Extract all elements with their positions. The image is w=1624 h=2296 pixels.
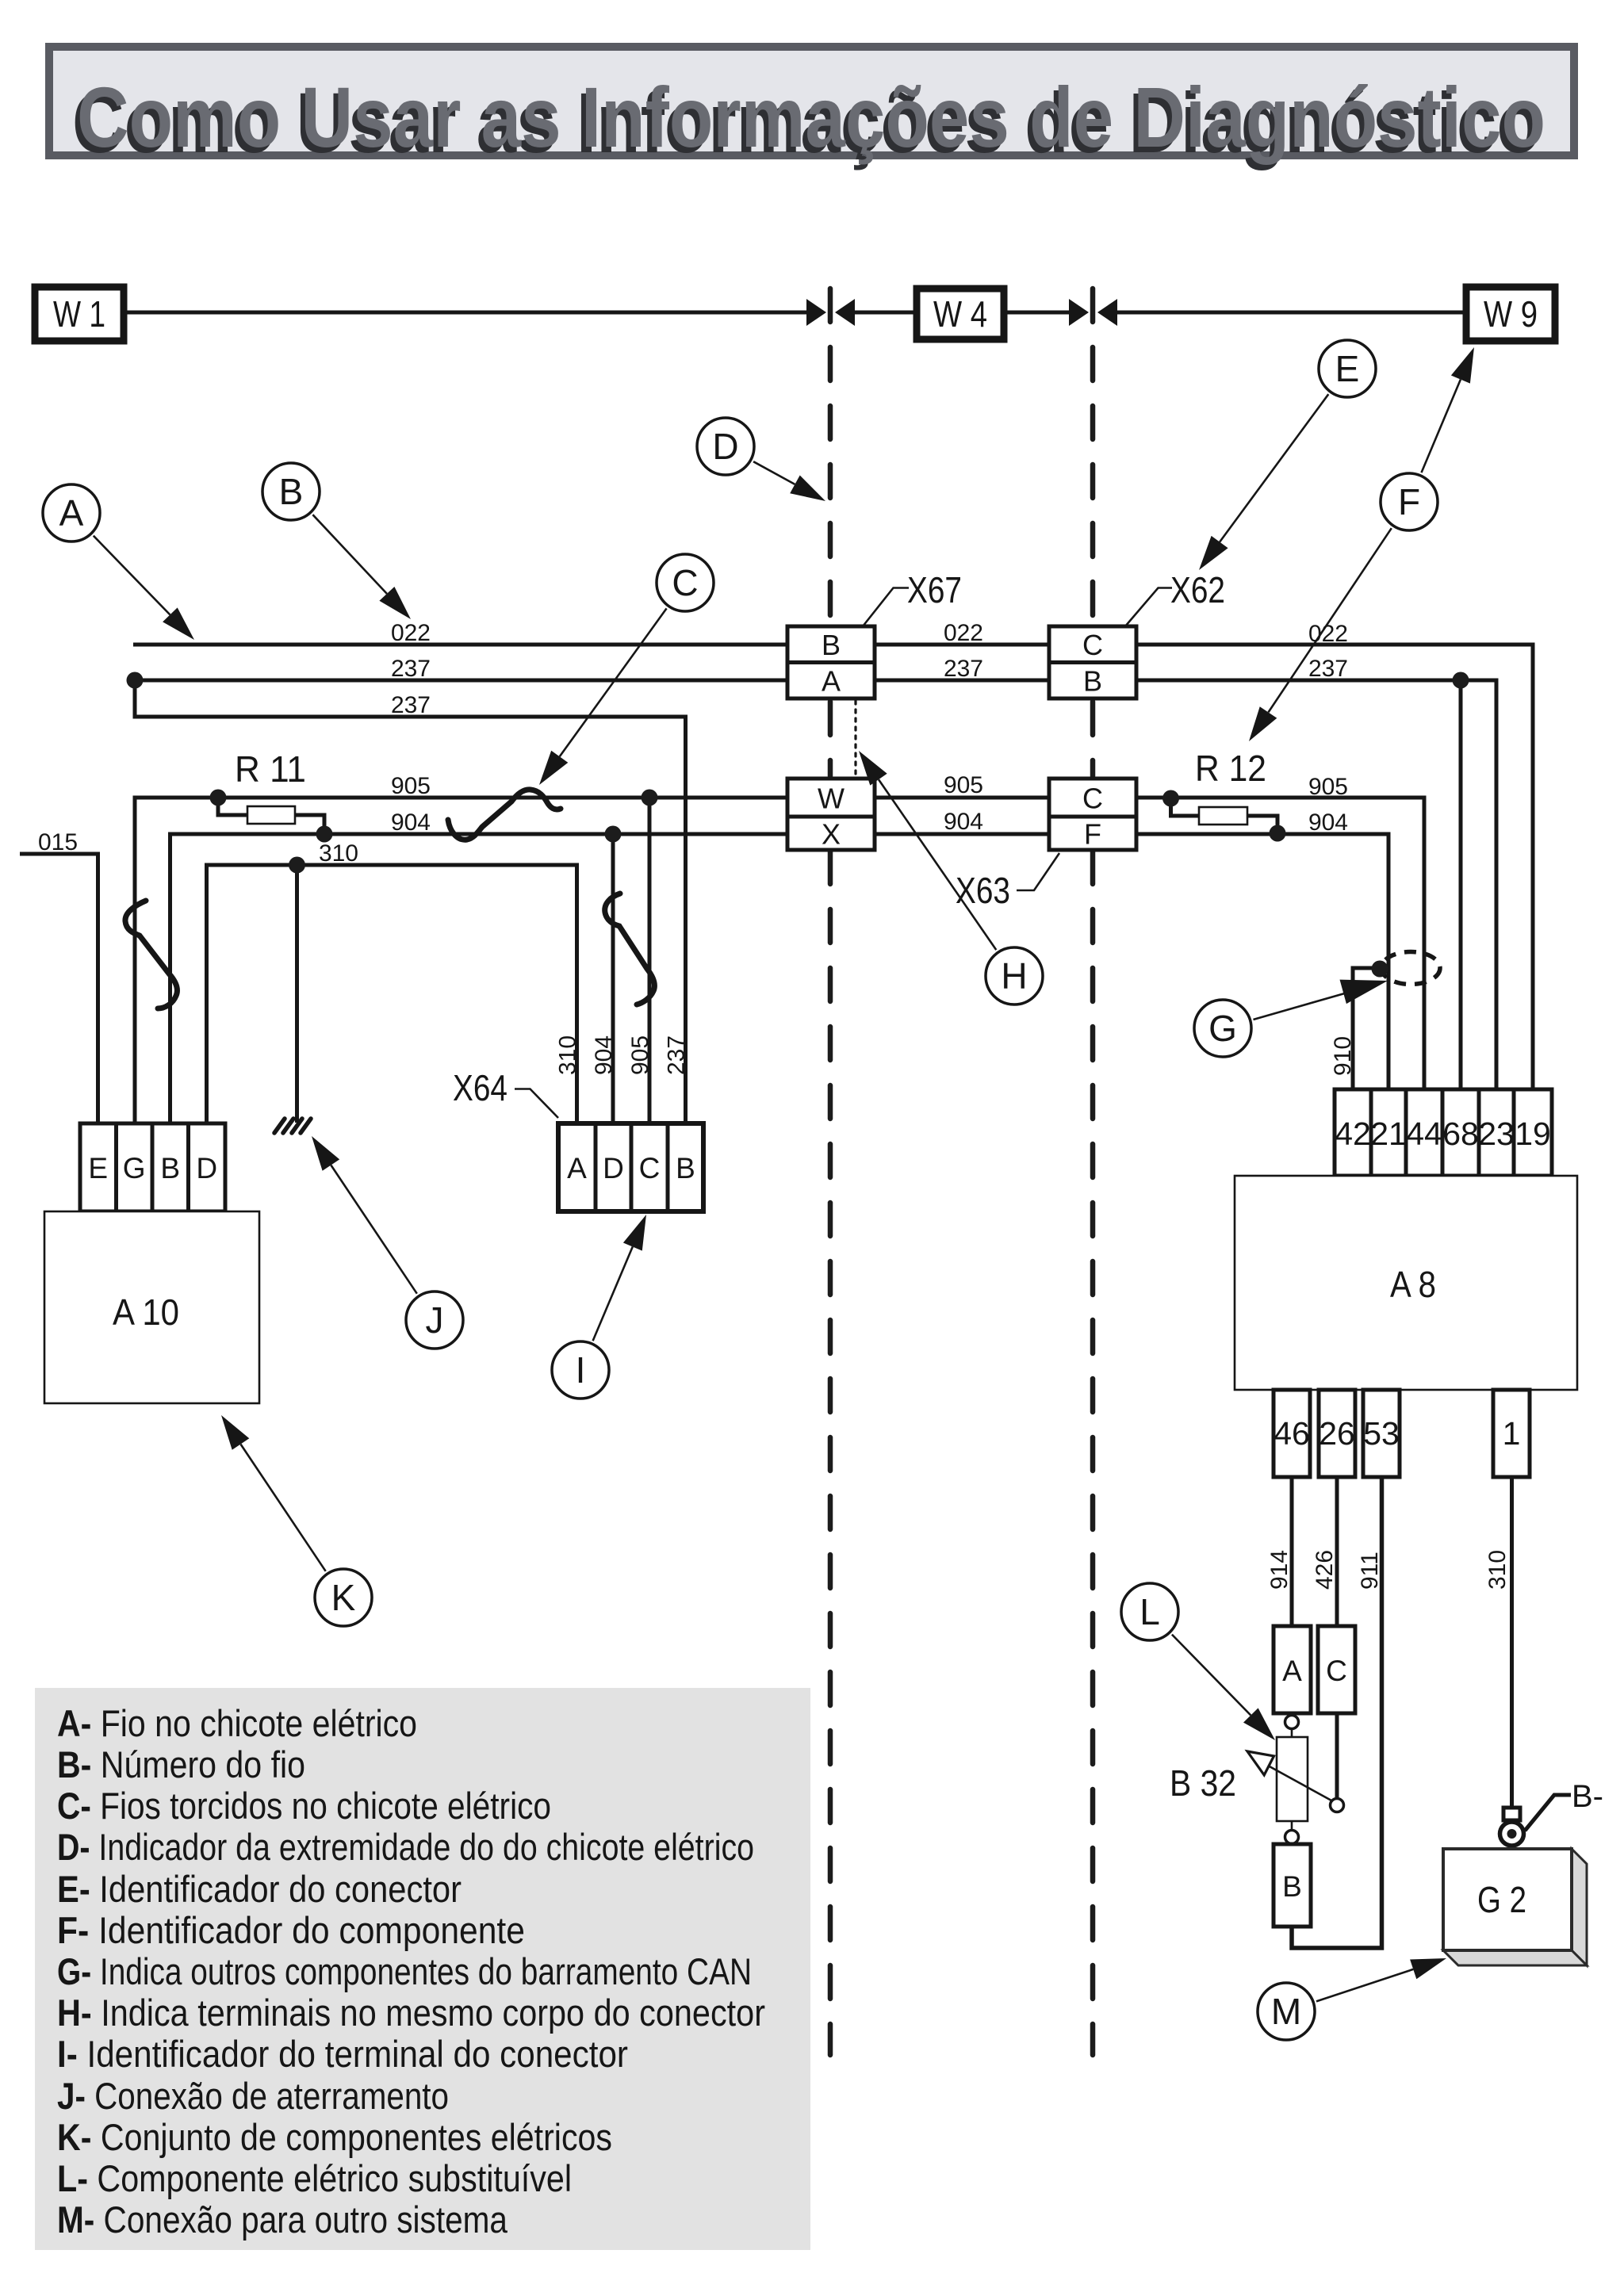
junction X64-C drop on 905 — [642, 790, 658, 806]
svg-text:022: 022 — [391, 620, 431, 646]
svg-text:905: 905 — [944, 772, 983, 798]
harness box W4 — [917, 289, 1004, 339]
harness box W1 — [35, 287, 124, 341]
svg-text:M: M — [1271, 1991, 1301, 2032]
svg-text:1: 1 — [1503, 1415, 1521, 1452]
wire 310 battery — [1510, 1477, 1514, 1808]
svg-text:B- Número do fio: B- Número do fio — [57, 1743, 305, 1785]
svg-text:E- Identificador do conector: E- Identificador do conector — [57, 1868, 462, 1910]
svg-text:310: 310 — [319, 840, 358, 867]
svg-text:26: 26 — [1319, 1415, 1355, 1452]
A8 top terminal block — [1335, 1089, 1552, 1176]
twisted pair symbol X64 vertical — [605, 894, 655, 1004]
svg-text:905: 905 — [1308, 774, 1348, 800]
svg-text:B: B — [279, 471, 304, 512]
callout D — [697, 418, 825, 501]
svg-text:23: 23 — [1478, 1115, 1515, 1152]
svg-text:G: G — [123, 1152, 146, 1184]
B32 terminal C — [1318, 1626, 1355, 1713]
harness boundary dashed line left — [828, 289, 833, 2055]
svg-text:K- Conjunto de componentes elé: K- Conjunto de componentes elétricos — [57, 2116, 612, 2158]
callout G — [1194, 980, 1388, 1057]
svg-text:X: X — [822, 818, 841, 851]
junction R12 bottom on 904 — [1270, 825, 1286, 842]
svg-text:B: B — [822, 629, 841, 661]
svg-text:J- Conexão de aterramento: J- Conexão de aterramento — [57, 2075, 449, 2117]
svg-text:B: B — [676, 1152, 695, 1184]
junction on wire 237 left — [127, 672, 144, 689]
wire 910 — [1353, 968, 1387, 1089]
svg-text:D: D — [712, 426, 738, 467]
svg-text:X67: X67 — [907, 569, 962, 610]
wire 904 drop to X64 D — [611, 834, 615, 1123]
svg-text:B 32: B 32 — [1170, 1762, 1236, 1804]
legend panel — [35, 1688, 810, 2250]
callout L — [1121, 1583, 1275, 1740]
svg-text:C: C — [1082, 629, 1103, 661]
svg-text:I- Identificador do terminal d: I- Identificador do terminal do conector — [57, 2033, 628, 2075]
svg-text:H- Indica terminais no mesmo c: H- Indica terminais no mesmo corpo do co… — [57, 1992, 765, 2034]
svg-text:X63: X63 — [956, 870, 1010, 911]
battery post B- — [1500, 1779, 1604, 1846]
svg-text:G 2: G 2 — [1477, 1879, 1526, 1920]
svg-text:L- Componente elétrico substit: L- Componente elétrico substituível — [57, 2157, 572, 2199]
svg-text:L: L — [1139, 1591, 1160, 1632]
harness span line W1-W4 — [127, 299, 1463, 326]
B32 terminal B — [1274, 1844, 1311, 1927]
battery G2 — [1443, 1849, 1587, 1965]
svg-text:D- Indicador da extremidade do: D- Indicador da extremidade do do chicot… — [57, 1826, 754, 1868]
svg-text:C: C — [1082, 783, 1103, 815]
svg-text:904: 904 — [944, 809, 983, 835]
svg-text:B-: B- — [1572, 1779, 1603, 1814]
component B32 variable resistor — [1170, 1737, 1308, 1821]
svg-text:237: 237 — [1308, 656, 1348, 682]
callout A — [43, 484, 194, 640]
svg-text:B: B — [1083, 665, 1102, 698]
svg-text:X62: X62 — [1170, 569, 1225, 610]
callout E — [1199, 340, 1376, 570]
A8 bottom terminal 1 — [1493, 1390, 1530, 1477]
connector X62 — [1049, 569, 1225, 698]
svg-text:C: C — [1326, 1655, 1347, 1687]
svg-text:910: 910 — [1330, 1036, 1356, 1076]
svg-text:E: E — [88, 1152, 108, 1184]
svg-text:W 4: W 4 — [933, 293, 987, 335]
callout B — [262, 463, 411, 619]
B32 terminal A — [1274, 1626, 1311, 1713]
wire 237 upper — [135, 680, 1496, 1089]
svg-text:F- Identificador do componente: F- Identificador do componente — [57, 1909, 525, 1951]
harness boundary dashed line right — [1090, 289, 1096, 2055]
B32 wiper arm — [1247, 1751, 1331, 1800]
junction R12 top on 905 — [1162, 790, 1179, 807]
svg-text:A: A — [59, 492, 84, 534]
svg-text:W: W — [818, 783, 845, 815]
svg-text:Como Usar as Informações de Di: Como Usar as Informações de Diagnóstico — [77, 69, 1545, 165]
svg-text:C: C — [639, 1152, 661, 1184]
connector W/X — [787, 779, 875, 851]
svg-text:I: I — [576, 1349, 586, 1391]
svg-text:R 12: R 12 — [1195, 748, 1266, 789]
callout I — [552, 1215, 646, 1399]
svg-text:E: E — [1335, 348, 1360, 389]
junction ground on 310 — [289, 857, 305, 874]
junction R11 top on 905 — [210, 790, 227, 806]
svg-text:904: 904 — [1308, 809, 1348, 836]
svg-text:K: K — [331, 1577, 356, 1618]
svg-text:310: 310 — [1484, 1550, 1511, 1590]
callout F — [1249, 347, 1474, 741]
component A10 — [44, 1211, 259, 1403]
harness box W9 — [1466, 287, 1555, 341]
resistor R11 — [218, 748, 324, 834]
svg-text:015: 015 — [38, 829, 78, 855]
ground drop wire — [295, 865, 299, 1123]
svg-text:G: G — [1208, 1008, 1237, 1049]
svg-text:C- Fios torcidos no chicote el: C- Fios torcidos no chicote elétrico — [57, 1785, 551, 1827]
dotted same-connector link X67A to W — [854, 701, 856, 776]
svg-text:A 8: A 8 — [1390, 1264, 1436, 1305]
wire 015 — [20, 854, 98, 1123]
svg-text:A: A — [567, 1152, 587, 1184]
junction X64-D drop on 904 — [605, 826, 622, 843]
callout H — [859, 751, 1043, 1004]
callout K — [221, 1415, 372, 1626]
connector X67 — [787, 569, 962, 698]
svg-text:905: 905 — [627, 1035, 653, 1075]
svg-text:A- Fio no chicote elétrico: A- Fio no chicote elétrico — [57, 1702, 417, 1744]
connector X64 — [453, 1067, 703, 1211]
svg-text:G- Indica outros componentes d: G- Indica outros componentes do barramen… — [57, 1950, 752, 1992]
resistor R12 — [1171, 748, 1278, 833]
svg-text:D: D — [603, 1152, 624, 1184]
junction R11 bottom on 904 — [316, 826, 333, 843]
callout M — [1258, 1958, 1446, 2040]
svg-text:911: 911 — [1357, 1552, 1383, 1590]
svg-text:F: F — [1084, 818, 1101, 851]
svg-text:237: 237 — [664, 1035, 690, 1075]
wire 426 — [1335, 1477, 1339, 1626]
svg-text:904: 904 — [391, 809, 431, 836]
wire 905 — [135, 798, 1424, 1123]
svg-text:904: 904 — [591, 1035, 617, 1075]
svg-text:A 10: A 10 — [113, 1291, 179, 1333]
svg-text:21: 21 — [1370, 1115, 1407, 1152]
svg-text:46: 46 — [1274, 1415, 1310, 1452]
callout J — [312, 1136, 463, 1349]
svg-text:C: C — [672, 562, 698, 603]
wire 914 — [1290, 1477, 1294, 1626]
svg-text:022: 022 — [944, 620, 983, 646]
svg-text:B: B — [1282, 1870, 1302, 1903]
svg-text:W 1: W 1 — [53, 293, 105, 335]
svg-text:M- Conexão para outro sistema: M- Conexão para outro sistema — [57, 2198, 508, 2241]
svg-text:237: 237 — [944, 656, 983, 682]
A8 bottom terminal 46 — [1274, 1390, 1310, 1477]
svg-text:237: 237 — [391, 692, 431, 718]
connector X63 — [956, 779, 1136, 911]
svg-text:68: 68 — [1442, 1115, 1479, 1152]
title banner — [49, 47, 1574, 170]
svg-text:W 9: W 9 — [1484, 293, 1538, 335]
B32 pin circle top — [1285, 1713, 1299, 1737]
component A8 — [1235, 1176, 1577, 1390]
svg-text:237: 237 — [391, 656, 431, 682]
svg-text:R 11: R 11 — [235, 748, 306, 790]
wire 911 — [1292, 1477, 1382, 1948]
svg-text:D: D — [196, 1152, 217, 1184]
svg-text:914: 914 — [1266, 1550, 1293, 1590]
wire 022 — [133, 645, 1533, 1089]
junction 910 CAN node — [1372, 961, 1388, 978]
svg-text:H: H — [1001, 955, 1027, 997]
svg-text:B: B — [160, 1152, 180, 1184]
wire 237 lower run to X64 — [135, 680, 686, 1123]
svg-text:A: A — [822, 665, 841, 698]
svg-text:310: 310 — [555, 1035, 581, 1075]
svg-text:F: F — [1398, 481, 1420, 522]
svg-text:19: 19 — [1515, 1115, 1551, 1152]
twisted pair symbol left vertical — [125, 901, 177, 1008]
A8 bottom terminal 26 — [1319, 1390, 1355, 1477]
CAN bus dashed ellipse — [1381, 952, 1440, 985]
svg-text:44: 44 — [1406, 1115, 1442, 1152]
junction 237 branch — [1453, 672, 1469, 689]
svg-text:X64: X64 — [453, 1067, 507, 1108]
twisted pair symbol horizontal 905/904 — [448, 790, 561, 840]
svg-text:J: J — [426, 1299, 444, 1341]
wire 310 — [207, 865, 577, 1123]
svg-text:53: 53 — [1363, 1415, 1400, 1452]
A8 bottom terminal 53 — [1363, 1390, 1400, 1477]
B32 pin circle bottom — [1285, 1821, 1299, 1844]
ground — [274, 1119, 311, 1133]
svg-text:905: 905 — [391, 773, 431, 799]
wire 237 branch to pin 68 — [1459, 680, 1463, 1089]
callout C — [539, 554, 714, 785]
A10 terminal block — [80, 1123, 225, 1211]
svg-text:42: 42 — [1335, 1115, 1371, 1152]
svg-text:426: 426 — [1312, 1550, 1338, 1590]
B32 wiper wire from C — [1331, 1713, 1344, 1812]
svg-text:A: A — [1282, 1655, 1302, 1687]
wire 904 — [170, 834, 1389, 1123]
wire 905 drop to X64 C — [648, 798, 652, 1123]
